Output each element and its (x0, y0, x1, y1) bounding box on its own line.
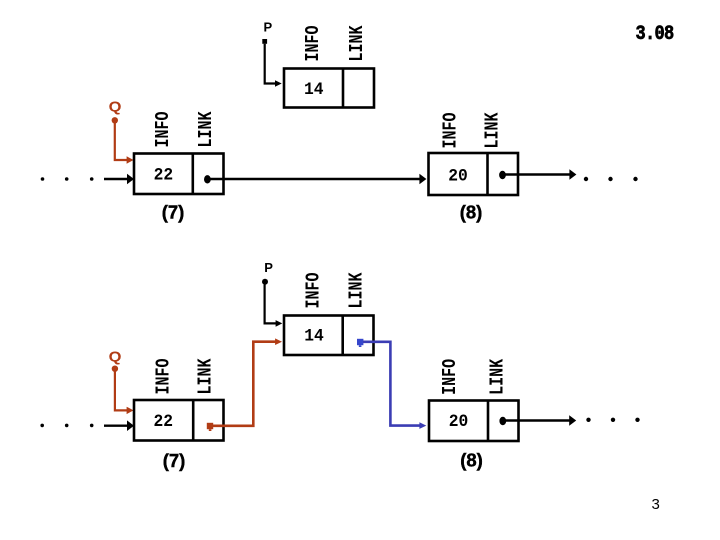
svg-text:Q: Q (109, 349, 122, 365)
INFO field label of node 22 (top) (152, 112, 175, 148)
link pointer dot inside node 20 (top) (499, 171, 506, 179)
LINK field label of node 20 (bottom) (487, 359, 510, 395)
svg-text:LINK: LINK (195, 358, 218, 394)
pointer label Q (bottom) (109, 349, 122, 365)
svg-text:(7): (7) (162, 202, 185, 223)
outgoing wire from node 20 (top) (503, 169, 577, 180)
node box 22 (bottom) (134, 400, 224, 441)
page number (652, 496, 660, 513)
new link square inside node 22 (bottom, red) (207, 423, 213, 431)
pointer Q anchor dot (top) (112, 117, 118, 123)
INFO field label of node 20 (top) (440, 113, 463, 149)
svg-text:22: 22 (154, 166, 174, 186)
incoming wire arrow into node 22 (bottom) (104, 420, 134, 431)
pointer P anchor square (top) (262, 39, 267, 44)
svg-text:(8): (8) (460, 450, 483, 471)
incoming wire arrow into node 22 (top) (104, 174, 134, 185)
svg-text:INFO: INFO (440, 113, 463, 149)
svg-text:LINK: LINK (482, 112, 505, 148)
ellipsis dots right (top) (584, 177, 638, 181)
pointer label Q (top) (109, 99, 122, 115)
caption (7) top (162, 202, 185, 223)
svg-text:3: 3 (652, 496, 660, 513)
svg-text:INFO: INFO (302, 26, 325, 62)
pointer label P (bottom) (264, 260, 273, 275)
pointer P anchor dot (bottom) (262, 279, 268, 285)
link pointer dot inside node 22 (top) (204, 175, 211, 183)
svg-text:20: 20 (448, 167, 468, 187)
LINK field label of node 22 (bottom) (195, 358, 218, 394)
outgoing wire from node 20 (bottom) (503, 415, 576, 426)
wire from node 22 link to node 14 (bottom, red) (213, 338, 282, 425)
LINK field label of node 22 (top) (195, 111, 218, 147)
caption (8) top (460, 202, 483, 223)
caption (8) bottom (460, 450, 483, 471)
svg-text:LINK: LINK (487, 359, 510, 395)
node box 14 (bottom) (284, 316, 374, 356)
wire from P to node 14 (bottom) (265, 285, 283, 327)
link pointer dot inside node 20 (bottom) (499, 417, 506, 425)
svg-text:LINK: LINK (346, 272, 369, 308)
svg-text:14: 14 (304, 81, 324, 101)
LINK field label of node 14 (bottom) (346, 272, 369, 308)
svg-text:20: 20 (449, 413, 469, 433)
INFO field label of node 22 (bottom) (153, 359, 176, 395)
wire from node 22 link to node 20 (top) (207, 174, 426, 185)
svg-text:22: 22 (154, 413, 174, 433)
slide number 3.08 (636, 23, 675, 46)
wire from node 14 link to node 20 (bottom, blue) (363, 342, 426, 429)
ellipsis dots left (bottom) (40, 424, 93, 428)
node box 22 (top) (134, 154, 224, 195)
svg-text:(7): (7) (163, 450, 186, 471)
svg-text:INFO: INFO (152, 112, 175, 148)
node box 20 (bottom) (429, 401, 519, 442)
new link square inside node 14 (bottom, blue) (357, 339, 363, 347)
svg-text:14: 14 (304, 327, 324, 347)
svg-text:Q: Q (109, 99, 122, 115)
LINK field label of node 20 (top) (482, 112, 505, 148)
svg-text:INFO: INFO (303, 273, 326, 309)
node box 14 (top) (284, 69, 374, 108)
INFO field label of node 14 (bottom) (303, 273, 326, 309)
svg-text:LINK: LINK (346, 25, 369, 61)
svg-text:P: P (264, 260, 273, 275)
INFO field label of node 14 (top) (302, 26, 325, 62)
svg-text:3.08: 3.08 (636, 23, 675, 46)
ellipsis dots right (bottom) (586, 418, 639, 422)
node box 20 (top) (429, 153, 519, 195)
caption (7) bottom (163, 450, 186, 471)
svg-text:(8): (8) (460, 202, 483, 223)
pointer Q anchor dot (bottom) (112, 366, 118, 372)
svg-text:INFO: INFO (439, 359, 462, 395)
svg-text:LINK: LINK (195, 111, 218, 147)
LINK field label of node 14 (top) (346, 25, 369, 61)
svg-text:P: P (264, 20, 273, 35)
svg-text:INFO: INFO (153, 359, 176, 395)
ellipsis dots left (top) (41, 177, 94, 181)
wire from Q to node 22 (bottom) (115, 372, 134, 415)
INFO field label of node 20 (bottom) (439, 359, 462, 395)
pointer label P (top) (264, 20, 273, 35)
wire from Q to node 22 (top) (115, 123, 134, 164)
wire from P to node 14 (top) (265, 44, 282, 87)
